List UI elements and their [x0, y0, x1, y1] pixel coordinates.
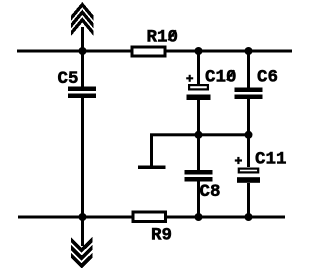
- resistor R9: [133, 212, 166, 222]
- junction dot top rail / C5 branch: [79, 47, 87, 55]
- supply arrow (top, triple chevron up): [71, 2, 93, 36]
- capacitor C6: [235, 88, 263, 100]
- ground symbol: [138, 166, 166, 170]
- capacitor C11 (polarized): [237, 169, 260, 183]
- svg-text:R10: R10: [147, 28, 179, 48]
- wire top rail left segment: [17, 50, 131, 53]
- capacitor C8: [185, 170, 213, 182]
- wire vertical: bottom rail to bottom arrow: [81, 217, 84, 246]
- wire vertical: C5 to bottom rail: [81, 98, 84, 217]
- wire ground stub: [150, 134, 153, 166]
- wire vertical: top rail to C10: [197, 51, 200, 84]
- slashed zero of C10: [227, 70, 235, 80]
- junction dot mid rail / C6-C11 branch: [245, 131, 253, 139]
- wire bottom rail right segment: [167, 216, 285, 219]
- wire vertical: mid rail to C11: [247, 134, 250, 167]
- junction dot bottom rail / C5 branch: [79, 213, 87, 221]
- plus sign of C10: [186, 75, 193, 82]
- junction dot bottom rail / C11 branch: [245, 213, 253, 221]
- wire vertical: C10 to mid rail: [197, 100, 200, 136]
- junction dot mid rail / C10-C8 branch: [195, 131, 203, 139]
- wire bottom rail left segment: [18, 216, 132, 219]
- svg-text:C11: C11: [255, 150, 287, 170]
- svg-text:R9: R9: [151, 226, 172, 246]
- wire vertical: mid rail to C8: [197, 134, 200, 170]
- slashed zero of R10: [168, 30, 176, 40]
- wire vertical: C6 to mid rail: [247, 99, 250, 136]
- capacitor C10 (polarized): [187, 85, 211, 100]
- wire vertical: C8 to bottom rail: [197, 182, 200, 218]
- resistor R10: [132, 47, 165, 56]
- svg-text:C6: C6: [257, 68, 278, 88]
- svg-text:C10: C10: [205, 68, 237, 88]
- svg-text:C5: C5: [58, 69, 79, 89]
- wire vertical: top arrow to top rail: [81, 27, 84, 51]
- wire vertical: C11 to bottom rail: [247, 183, 250, 217]
- wire vertical: top rail to C5: [81, 51, 84, 87]
- wire mid rail (ground tie): [150, 133, 250, 136]
- svg-text:C8: C8: [200, 182, 221, 202]
- junction dot bottom rail / C8 branch: [195, 213, 203, 221]
- plus sign of C11: [235, 157, 242, 164]
- wire vertical: top rail to C6: [247, 51, 250, 88]
- supply arrow (bottom, triple chevron down): [71, 237, 93, 268]
- wire top rail right segment: [166, 50, 292, 53]
- junction dot top rail / C10 branch: [195, 47, 203, 55]
- junction dot top rail / C6 branch: [245, 47, 253, 55]
- capacitor C5: [68, 87, 96, 99]
